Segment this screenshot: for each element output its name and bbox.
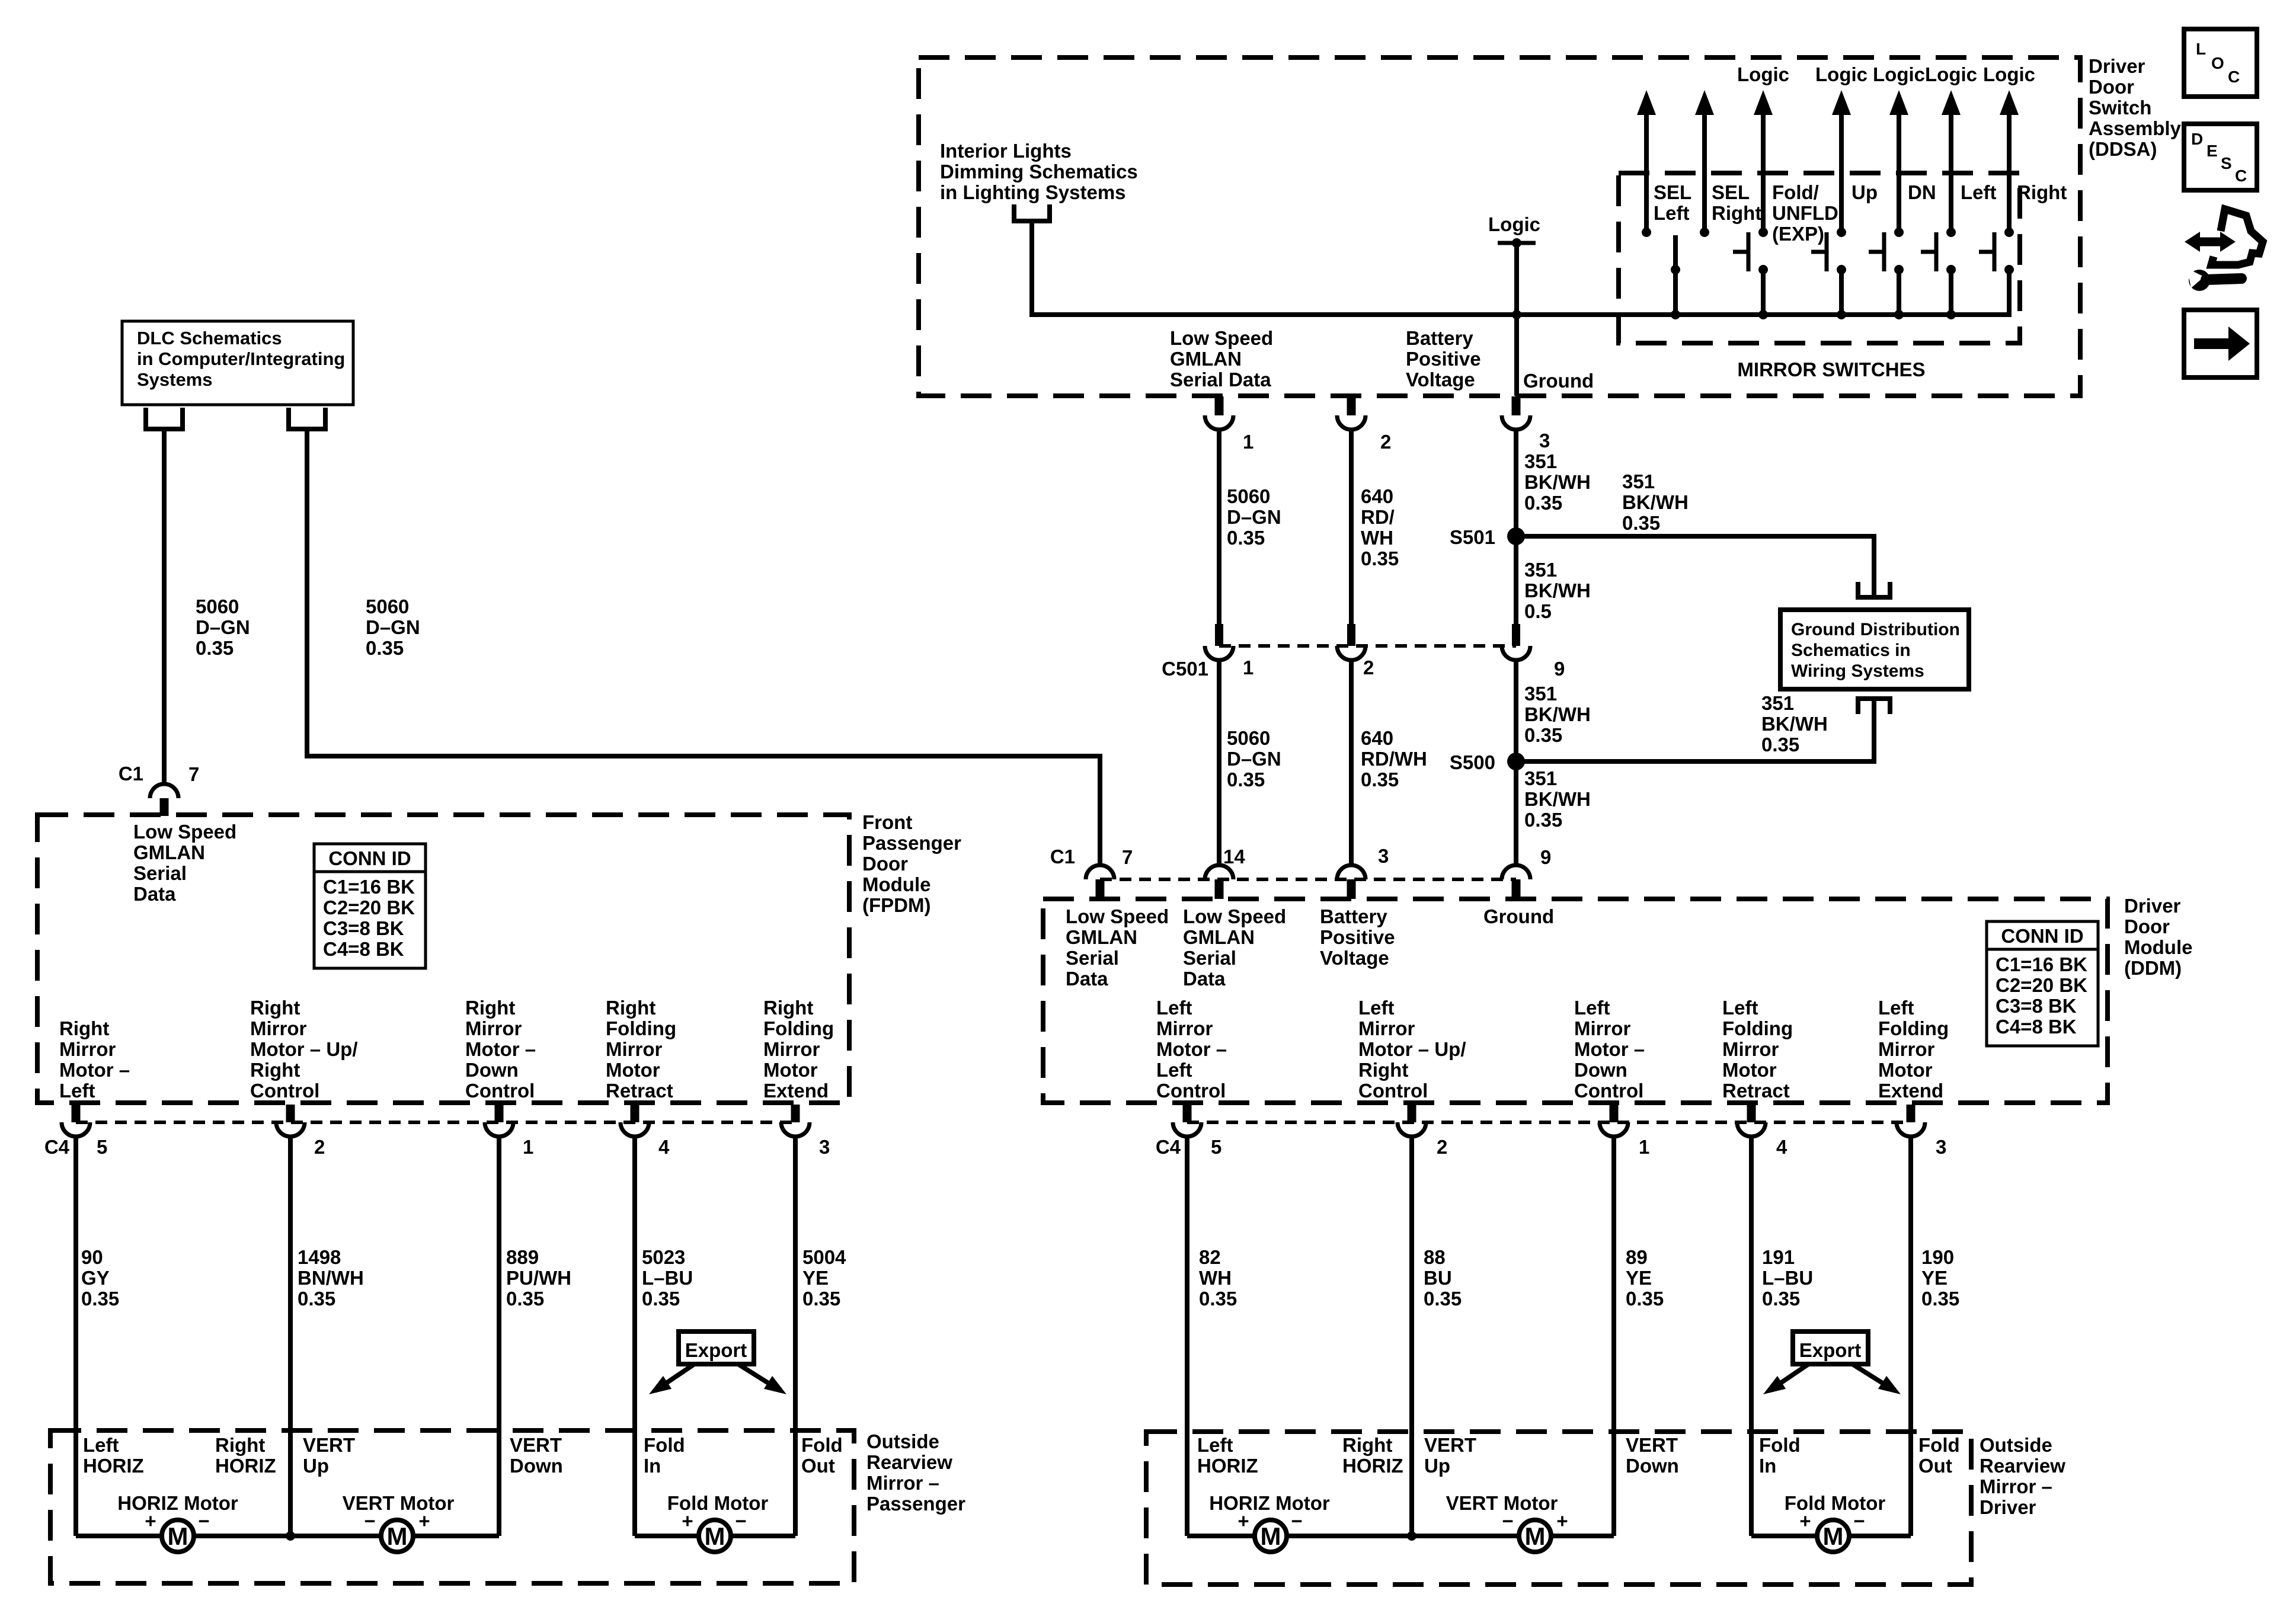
svg-text:351: 351 [1761, 692, 1794, 714]
svg-text:Left: Left [1961, 181, 1997, 203]
DDM C1 pin 3 connector [1337, 865, 1366, 899]
svg-text:Positive: Positive [1406, 348, 1481, 370]
svg-text:+: + [682, 1510, 693, 1532]
svg-text:0.35: 0.35 [1524, 809, 1562, 831]
svg-text:C4=8 BK: C4=8 BK [1996, 1016, 2077, 1038]
wire: DDM 4 to driver fold motor left [1749, 1137, 1754, 1536]
svg-text:O: O [2211, 54, 2224, 72]
svg-text:Low Speed: Low Speed [1170, 327, 1273, 349]
svg-text:C1=16 BK: C1=16 BK [323, 876, 415, 898]
svg-text:Folding: Folding [1878, 1017, 1949, 1039]
svg-text:90: 90 [81, 1246, 103, 1268]
label: Left Mirror Motor - Up/Right Control [1358, 997, 1466, 1102]
motor: driver VERT [1519, 1520, 1551, 1552]
Up switch [1811, 90, 1851, 319]
svg-text:C3=8 BK: C3=8 BK [1996, 995, 2077, 1017]
svg-text:Data: Data [133, 883, 176, 905]
svg-text:0.35: 0.35 [81, 1288, 119, 1310]
svg-text:−: − [1291, 1510, 1302, 1532]
svg-text:0.35: 0.35 [1622, 512, 1660, 534]
motor: driver HORIZ [1255, 1520, 1287, 1552]
label: 89 YE 0.35 [1626, 1246, 1664, 1310]
label: Low Speed GMLAN Serial Data (FPDM) [133, 821, 236, 905]
svg-text:C4: C4 [1156, 1136, 1181, 1158]
svg-text:HORIZ Motor: HORIZ Motor [1209, 1492, 1330, 1514]
wire: S500 to DDM pin 9 [1514, 761, 1518, 865]
svg-text:D–GN: D–GN [1227, 748, 1281, 770]
svg-text:Control: Control [465, 1080, 535, 1102]
wire: driver horiz/vert motor bus [1187, 1534, 1614, 1538]
svg-text:Ground: Ground [1523, 370, 1594, 392]
svg-text:Ground: Ground [1483, 905, 1554, 927]
switch SEL Left: arrow and contact [1637, 90, 1656, 237]
box: Driver Door Switch Assembly (DDSA), dashed [919, 57, 2080, 396]
label: Low Speed GMLAN Serial Data (DDSA) [1170, 327, 1273, 391]
wire: battery DDSA 2 to C501 2 [1349, 430, 1354, 624]
svg-text:190: 190 [1921, 1246, 1954, 1268]
svg-text:−: − [1502, 1510, 1513, 1532]
Right switch [1979, 90, 2019, 274]
svg-text:Extend: Extend [763, 1080, 829, 1102]
svg-text:VERT: VERT [1424, 1434, 1476, 1456]
DDM C1 pin 14 connector [1205, 865, 1233, 899]
table: CONN ID (DDM) [1987, 921, 2098, 1046]
label: Right Folding Mirror Motor Retract [606, 997, 676, 1102]
svg-text:VERT: VERT [1626, 1434, 1678, 1456]
wire: C501 1 to DDM 14 [1217, 660, 1221, 865]
labels: Left HORIZ / Right HORIZ / VERT Up [83, 1434, 355, 1477]
svg-text:BK/WH: BK/WH [1524, 788, 1591, 810]
label: Outside Rearview Mirror - Driver [1980, 1434, 2065, 1518]
svg-text:0.35: 0.35 [1921, 1288, 1959, 1310]
svg-text:+: + [1799, 1510, 1811, 1532]
svg-text:GMLAN: GMLAN [1066, 926, 1137, 948]
label: 5060 D-GN 0.35 (lower) [1227, 727, 1281, 790]
svg-text:Driver: Driver [1980, 1496, 2036, 1518]
SEL selector pole wire to ground bus [1671, 235, 1680, 319]
svg-text:Logic: Logic [1737, 63, 1789, 85]
splice S501 [1450, 526, 1525, 548]
svg-text:−: − [198, 1510, 209, 1532]
svg-text:Outside: Outside [1980, 1434, 2052, 1456]
svg-text:RD/WH: RD/WH [1361, 748, 1427, 770]
svg-text:Down: Down [1574, 1059, 1627, 1081]
svg-text:−: − [1853, 1510, 1865, 1532]
label: 88 BU 0.35 [1424, 1246, 1462, 1310]
label: 90 GY 0.35 [81, 1246, 119, 1310]
svg-text:In: In [644, 1455, 661, 1477]
svg-text:Down: Down [510, 1455, 563, 1477]
wire: serial data DDSA 1 to C501 1 [1217, 430, 1221, 624]
Left switch [1921, 90, 1961, 319]
svg-text:YE: YE [1626, 1267, 1652, 1289]
svg-text:Logic: Logic [1815, 63, 1868, 85]
svg-text:0.35: 0.35 [802, 1288, 840, 1310]
svg-text:Mirror: Mirror [606, 1038, 663, 1060]
svg-text:Module: Module [862, 873, 930, 895]
label: Right Mirror Motor - Left [59, 1017, 130, 1102]
svg-text:Left: Left [59, 1080, 95, 1102]
svg-text:0.35: 0.35 [1424, 1288, 1462, 1310]
wire: DDM 3 to driver fold motor right [1908, 1137, 1913, 1536]
svg-text:0.35: 0.35 [506, 1288, 544, 1310]
motor: passenger HORIZ [162, 1520, 194, 1552]
svg-text:Mirror: Mirror [1358, 1017, 1415, 1039]
svg-text:WH: WH [1361, 527, 1393, 549]
svg-text:Data: Data [1066, 968, 1108, 990]
wire: FPDM 2 to VERT motor [288, 1137, 293, 1536]
switch SEL Right: arrow and contact [1695, 90, 1714, 237]
label: 640 RD/WH 0.35 (lower) [1361, 727, 1427, 790]
label: Left Folding Mirror Motor Retract [1722, 997, 1793, 1102]
DDM C4 pin 5 connector [1173, 1105, 1201, 1137]
svg-text:Logic: Logic [1488, 213, 1540, 235]
svg-text:E: E [2207, 142, 2218, 160]
svg-text:L–BU: L–BU [1762, 1267, 1813, 1289]
svg-text:3: 3 [1936, 1136, 1946, 1158]
label: 5004 YE 0.35 [802, 1246, 846, 1310]
svg-text:Right: Right [1342, 1434, 1392, 1456]
FPDM C4 pin 4 connector [621, 1105, 649, 1137]
svg-text:Passenger: Passenger [862, 832, 961, 854]
svg-text:Module: Module [2124, 936, 2192, 958]
DN switch [1869, 90, 1908, 319]
svg-text:Logic: Logic [1873, 63, 1925, 85]
svg-text:BU: BU [1424, 1267, 1452, 1289]
svg-text:S: S [2221, 154, 2232, 172]
wire: S501 to C501 pin 9 [1514, 536, 1518, 624]
label: wire 5060 D-GN 0.35 (right) [366, 596, 420, 659]
label: 640 RD/ WH 0.35 [1361, 485, 1399, 569]
svg-text:Wiring Systems: Wiring Systems [1791, 661, 1924, 681]
svg-text:DLC Schematics: DLC Schematics [137, 328, 282, 348]
wire: interior lights to ground bus [1032, 223, 2009, 315]
svg-text:BK/WH: BK/WH [1761, 713, 1828, 735]
FPDM C4 pin 1 connector [485, 1105, 513, 1137]
svg-text:0.35: 0.35 [1199, 1288, 1237, 1310]
svg-text:0.35: 0.35 [1227, 527, 1265, 549]
labels: VERT Down / Fold In / Fold Out (passenger) [510, 1434, 843, 1477]
svg-text:82: 82 [1199, 1246, 1221, 1268]
wire: passenger fold motor bus [635, 1534, 795, 1538]
label: Outside Rearview Mirror - Passenger [866, 1430, 965, 1515]
wire: driver fold motor bus [1751, 1534, 1911, 1538]
svg-text:Front: Front [862, 811, 912, 833]
labels: C4 and pin numbers (DDM) [1156, 1136, 1947, 1158]
svg-text:Motor –: Motor – [59, 1059, 130, 1081]
svg-text:YE: YE [802, 1267, 829, 1289]
labels: C1 and pin numbers (DDM top) [1050, 845, 1552, 868]
svg-text:C1=16 BK: C1=16 BK [1996, 953, 2087, 975]
wire: DDM 2 to driver VERT motor [1409, 1137, 1414, 1536]
label: Interior Lights Dimming Schematics in Lighting Systems [940, 140, 1138, 203]
motor: passenger VERT [381, 1520, 413, 1552]
svg-text:Motor: Motor [1722, 1059, 1777, 1081]
svg-text:(FPDM): (FPDM) [862, 894, 930, 916]
svg-text:Motor –: Motor – [1574, 1038, 1645, 1060]
svg-text:Mirror: Mirror [1574, 1017, 1631, 1039]
svg-text:1: 1 [1243, 657, 1253, 678]
svg-text:640: 640 [1361, 727, 1393, 749]
C501 pin 1 connector [1205, 624, 1233, 660]
svg-text:C2=20 BK: C2=20 BK [1996, 974, 2087, 996]
svg-text:Low Speed: Low Speed [133, 821, 236, 843]
icon: service wrench with double arrow [2185, 209, 2263, 291]
connector C501 dashed line [1219, 644, 1516, 648]
wire: C501 9 to splice S500 [1514, 660, 1518, 761]
svg-text:1498: 1498 [298, 1246, 341, 1268]
svg-text:(EXP): (EXP) [1772, 223, 1824, 245]
DDM C1 pin 9 connector [1502, 865, 1530, 899]
svg-text:Schematics in: Schematics in [1791, 641, 1911, 660]
svg-text:M: M [1525, 1522, 1546, 1550]
label: 190 YE 0.35 [1921, 1246, 1959, 1310]
Export box (passenger) [679, 1331, 754, 1364]
wire: logic tap down to ground pin [1514, 243, 1519, 396]
svg-text:D: D [2191, 130, 2203, 148]
logic tap T-bar [1498, 238, 1536, 248]
svg-text:In: In [1759, 1455, 1776, 1477]
label: Low Speed GMLAN Serial Data (DDM pin7) [1066, 905, 1169, 990]
svg-text:Up: Up [303, 1455, 329, 1477]
svg-text:Passenger: Passenger [866, 1493, 965, 1515]
label: Right Mirror Motor - Down Control [465, 997, 536, 1102]
wire: DDM 1 to driver VERT motor right [1611, 1137, 1616, 1536]
svg-text:0.35: 0.35 [298, 1288, 335, 1310]
svg-text:88: 88 [1424, 1246, 1446, 1268]
svg-text:BK/WH: BK/WH [1524, 580, 1591, 601]
svg-text:(DDSA): (DDSA) [2089, 138, 2157, 160]
svg-text:M: M [705, 1522, 725, 1550]
svg-text:Serial: Serial [133, 862, 187, 884]
svg-text:GMLAN: GMLAN [133, 841, 205, 863]
svg-text:Serial Data: Serial Data [1170, 369, 1271, 391]
DDSA pin 2 connector [1337, 396, 1366, 430]
label: Battery Positive Voltage (DDSA) [1406, 327, 1481, 391]
svg-text:640: 640 [1361, 485, 1393, 507]
motor: driver Fold [1817, 1520, 1849, 1552]
svg-text:Retract: Retract [606, 1080, 673, 1102]
box: Ground Distribution Schematics in Wiring Systems [1780, 610, 1969, 689]
labels: DDSA pin numbers 1 2 3 [1243, 430, 1550, 453]
labels: VERT Down / Fold In / Fold Out (driver) [1626, 1434, 1960, 1477]
svg-text:Motor: Motor [763, 1059, 818, 1081]
svg-text:Export: Export [685, 1339, 747, 1361]
svg-text:5060: 5060 [366, 596, 409, 617]
svg-text:351: 351 [1524, 683, 1557, 705]
svg-text:Data: Data [1183, 968, 1226, 990]
svg-text:MIRROR SWITCHES: MIRROR SWITCHES [1737, 359, 1925, 380]
svg-text:0.35: 0.35 [1626, 1288, 1664, 1310]
svg-text:Up: Up [1851, 181, 1878, 203]
label: Right Folding Mirror Motor Extend [763, 997, 834, 1102]
svg-text:2: 2 [1380, 431, 1391, 453]
FPDM C4 pin 5 connector [62, 1105, 90, 1137]
svg-text:Mirror: Mirror [1878, 1038, 1935, 1060]
export arrow right (passenger) [739, 1365, 791, 1401]
box: DLC Schematics in Computer/Integrating Systems [122, 321, 353, 405]
svg-text:9: 9 [1554, 658, 1565, 680]
wire: passenger horiz/vert motor bus [76, 1534, 499, 1538]
svg-text:Left: Left [1574, 997, 1610, 1019]
wire: DLC to DDM C1 pin 7 (serial data) [307, 431, 1100, 865]
svg-text:Mirror –: Mirror – [1980, 1475, 2052, 1497]
label: wire 5060 D-GN 0.35 (left) [196, 596, 250, 659]
svg-text:Mirror: Mirror [250, 1017, 307, 1039]
Fold/UNFLD switch [1733, 90, 1773, 319]
svg-text:Left: Left [1156, 1059, 1192, 1081]
label: 351 BK/WH 0.35 (above S500) [1524, 683, 1591, 746]
label: 351 BK/WH 0.5 [1524, 559, 1591, 622]
table: CONN ID (FPDM) [314, 844, 426, 968]
polarity + - (driver Fold) [1799, 1510, 1865, 1532]
labels: C4 and pin numbers (FPDM) [44, 1136, 830, 1158]
svg-text:Logic: Logic [1925, 63, 1977, 85]
label: 889 PU/WH 0.35 [506, 1246, 571, 1310]
svg-text:+: + [1237, 1510, 1249, 1532]
svg-text:WH: WH [1199, 1267, 1232, 1289]
svg-text:SEL: SEL [1654, 181, 1691, 203]
svg-text:0.35: 0.35 [1761, 734, 1799, 756]
svg-text:+: + [1556, 1510, 1568, 1532]
label: 1498 BN/WH 0.35 [298, 1246, 364, 1310]
svg-text:Retract: Retract [1722, 1080, 1790, 1102]
svg-text:D–GN: D–GN [366, 616, 420, 638]
junction dot (passenger pin 2 bus) [286, 1531, 295, 1541]
svg-text:Assembly: Assembly [2089, 117, 2182, 139]
svg-text:Up: Up [1424, 1455, 1450, 1477]
svg-text:RD/: RD/ [1361, 506, 1395, 528]
svg-text:Battery: Battery [1320, 905, 1387, 927]
polarity + - (driver HORIZ) [1237, 1510, 1302, 1532]
svg-text:889: 889 [506, 1246, 539, 1268]
svg-text:5060: 5060 [196, 596, 239, 617]
svg-text:Folding: Folding [763, 1017, 834, 1039]
svg-text:GY: GY [81, 1267, 110, 1289]
wire: FPDM 3 to fold motor right [793, 1137, 798, 1536]
export arrow right (driver) [1853, 1365, 1905, 1401]
wire: FPDM 1 to VERT motor right [497, 1137, 501, 1536]
label: Battery Positive Voltage (DDM) [1320, 905, 1395, 969]
svg-text:Serial: Serial [1183, 947, 1236, 969]
connector C4 dashed line (DDM) [1187, 1121, 1911, 1124]
svg-text:Fold: Fold [644, 1434, 685, 1456]
icon: DESC box [2184, 124, 2257, 190]
label: 5023 L-BU 0.35 [642, 1246, 693, 1310]
svg-text:in Computer/Integrating: in Computer/Integrating [137, 348, 345, 369]
label: Driver Door Module (DDM) [2124, 895, 2192, 979]
svg-text:0.35: 0.35 [642, 1288, 680, 1310]
svg-text:Serial: Serial [1066, 947, 1119, 969]
svg-text:Fold: Fold [1918, 1434, 1960, 1456]
svg-text:1: 1 [523, 1136, 533, 1158]
svg-text:CONN ID: CONN ID [328, 847, 411, 869]
svg-text:Ground Distribution: Ground Distribution [1791, 620, 1960, 639]
svg-text:VERT Motor: VERT Motor [343, 1492, 455, 1514]
label: Left Folding Mirror Motor Extend [1878, 997, 1949, 1102]
svg-text:Switch: Switch [2089, 97, 2151, 119]
label: Front Passenger Door Module (FPDM) [862, 811, 961, 916]
svg-text:Right: Right [1712, 202, 1761, 224]
svg-text:Mirror: Mirror [59, 1038, 116, 1060]
svg-text:Mirror –: Mirror – [866, 1472, 939, 1494]
svg-text:191: 191 [1762, 1246, 1795, 1268]
svg-text:PU/WH: PU/WH [506, 1267, 571, 1289]
polarity + - (passenger HORIZ) [145, 1510, 209, 1532]
svg-text:Left: Left [1722, 997, 1758, 1019]
polarity - + (driver VERT) [1502, 1510, 1568, 1532]
svg-text:0.35: 0.35 [1227, 769, 1265, 790]
svg-text:CONN ID: CONN ID [2001, 925, 2083, 947]
svg-text:M: M [168, 1522, 188, 1550]
svg-text:in Lighting Systems: in Lighting Systems [940, 181, 1126, 203]
svg-text:Dimming Schematics: Dimming Schematics [940, 161, 1138, 183]
svg-text:0.5: 0.5 [1524, 600, 1552, 622]
splice S500 [1450, 751, 1525, 773]
label: 351 BK/WH 0.35 (below S500) [1524, 767, 1591, 831]
bracket: ground distribution bottom [1856, 696, 1892, 714]
svg-text:C2=20 BK: C2=20 BK [323, 897, 415, 918]
polarity + - (passenger Fold) [682, 1510, 746, 1532]
svg-text:Motor: Motor [1878, 1059, 1933, 1081]
svg-text:4: 4 [1776, 1136, 1787, 1158]
motor: passenger Fold [699, 1520, 731, 1552]
svg-text:−: − [735, 1510, 746, 1532]
svg-text:Fold: Fold [1759, 1434, 1801, 1456]
DDSA pin 1 connector [1205, 396, 1233, 430]
svg-text:Mirror: Mirror [1156, 1017, 1213, 1039]
svg-text:Driver: Driver [2124, 895, 2181, 917]
junction dot on ground bus [1512, 310, 1521, 319]
svg-text:Control: Control [250, 1080, 319, 1102]
label: Left Mirror Motor - Left Control [1156, 997, 1227, 1102]
svg-text:Low Speed: Low Speed [1066, 905, 1169, 927]
svg-text:5023: 5023 [642, 1246, 685, 1268]
svg-text:Down: Down [1626, 1455, 1679, 1477]
svg-text:Extend: Extend [1878, 1080, 1943, 1102]
off-page connector bracket (DLC pin A) [143, 408, 185, 431]
wire: DLC to FPDM C1 pin 7 (serial data) [162, 431, 167, 784]
svg-text:D–GN: D–GN [196, 616, 250, 638]
svg-text:BK/WH: BK/WH [1524, 703, 1591, 725]
svg-text:4: 4 [658, 1136, 670, 1158]
svg-text:C: C [2235, 167, 2247, 185]
svg-text:5: 5 [1211, 1136, 1221, 1158]
box: Front Passenger Door Module (FPDM), dashed [37, 815, 849, 1103]
connector C4 dashed line (FPDM) [76, 1121, 795, 1124]
labels: C1 7 (FPDM) [119, 763, 200, 785]
polarity - + (passenger VERT) [364, 1510, 430, 1532]
svg-text:Right: Right [215, 1434, 265, 1456]
svg-text:Motor – Up/: Motor – Up/ [1358, 1038, 1466, 1060]
svg-text:0.35: 0.35 [366, 637, 404, 659]
svg-text:Interior Lights: Interior Lights [940, 140, 1072, 162]
svg-text:0.35: 0.35 [1762, 1288, 1800, 1310]
wire: S501 to ground distribution [1516, 536, 1874, 600]
svg-text:351: 351 [1524, 559, 1557, 581]
Export box (driver) [1793, 1331, 1868, 1364]
svg-text:Export: Export [1799, 1339, 1862, 1361]
svg-text:Down: Down [465, 1059, 519, 1081]
svg-text:Left: Left [1358, 997, 1395, 1019]
wire: ground distribution to splice S500 [1516, 696, 1874, 761]
svg-text:HORIZ Motor: HORIZ Motor [117, 1492, 238, 1514]
svg-text:2: 2 [1363, 657, 1374, 678]
svg-text:D–GN: D–GN [1227, 506, 1281, 528]
svg-text:HORIZ: HORIZ [1342, 1455, 1403, 1477]
svg-text:Right: Right [250, 997, 300, 1019]
label: 5060 D-GN 0.35 [1227, 485, 1281, 549]
